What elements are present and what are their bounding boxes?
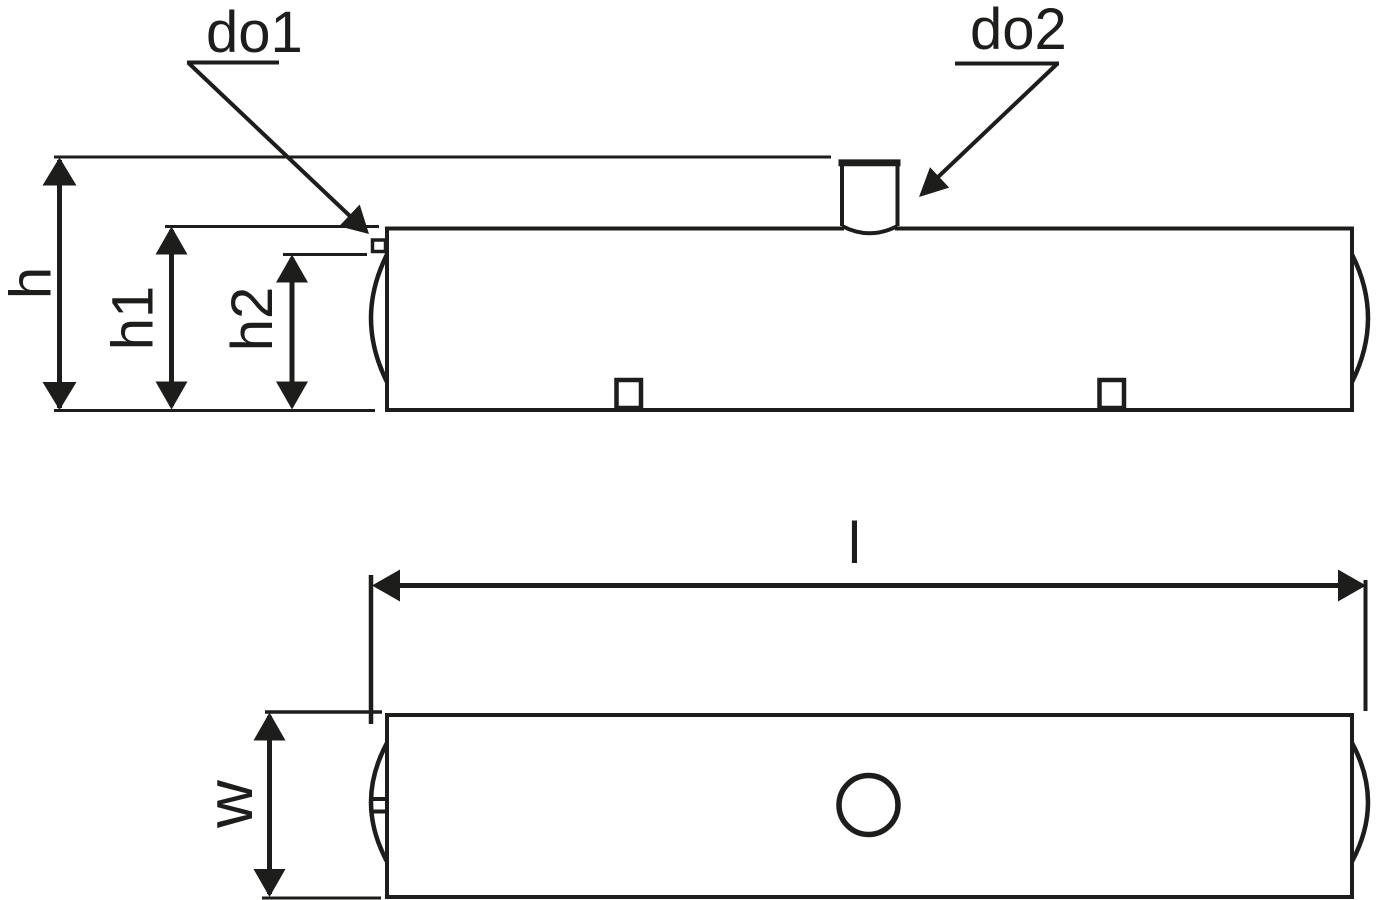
extension line top of h [54,156,831,159]
leader underline do2 [955,62,1059,66]
manhole circle plan view [839,776,898,835]
gap in shell top edge under nozzle [844,224,895,233]
fitting do1 stub plan view lower line [370,810,387,814]
left dished head arc side view [371,255,387,383]
tank shell plan view [387,715,1352,897]
svg-text:do2: do2 [970,0,1067,62]
tank shell side view [387,229,1352,411]
nozzle do2 top cap [839,159,901,166]
svg-text:do1: do1 [206,0,303,65]
leader line do2 [937,64,1057,178]
right dished head arc side view [1352,255,1368,383]
extension line top of w [265,710,382,714]
svg-text:w: w [192,780,266,829]
svg-text:h1: h1 [101,286,166,351]
left dished head arc plan view [371,743,387,862]
leader arrowhead do1 [339,205,369,235]
nozzle do2 right wall [896,163,900,226]
right dished head arc plan view [1352,743,1368,862]
fitting do1 side view [373,240,386,252]
dimension line w [267,716,272,894]
extension line top of h2 [283,253,367,256]
dimension line l [376,583,1362,588]
svg-text:h2: h2 [220,287,285,352]
svg-text:l: l [848,511,861,576]
extension line top of h1 [165,225,379,228]
dimension line h [57,160,62,408]
extension line left of l [369,575,374,724]
leader underline do1 [187,61,279,65]
dimension line h2 [290,258,295,405]
extension line bottom of w [262,897,381,900]
leader line do1 [188,63,352,219]
leader arrowhead do2 [919,167,949,197]
nozzle do2 bottom saddle arc [842,226,898,233]
nozzle do2 left wall [840,163,844,226]
extension line right of l [1364,580,1368,711]
svg-text:h: h [0,267,64,299]
fitting do1 stub plan view upper line [370,797,387,801]
dimension line h1 [169,230,174,406]
extension line bottom of h h1 h2 [54,409,375,412]
right foot tab side view [1100,380,1125,408]
left foot tab side view [617,380,642,408]
